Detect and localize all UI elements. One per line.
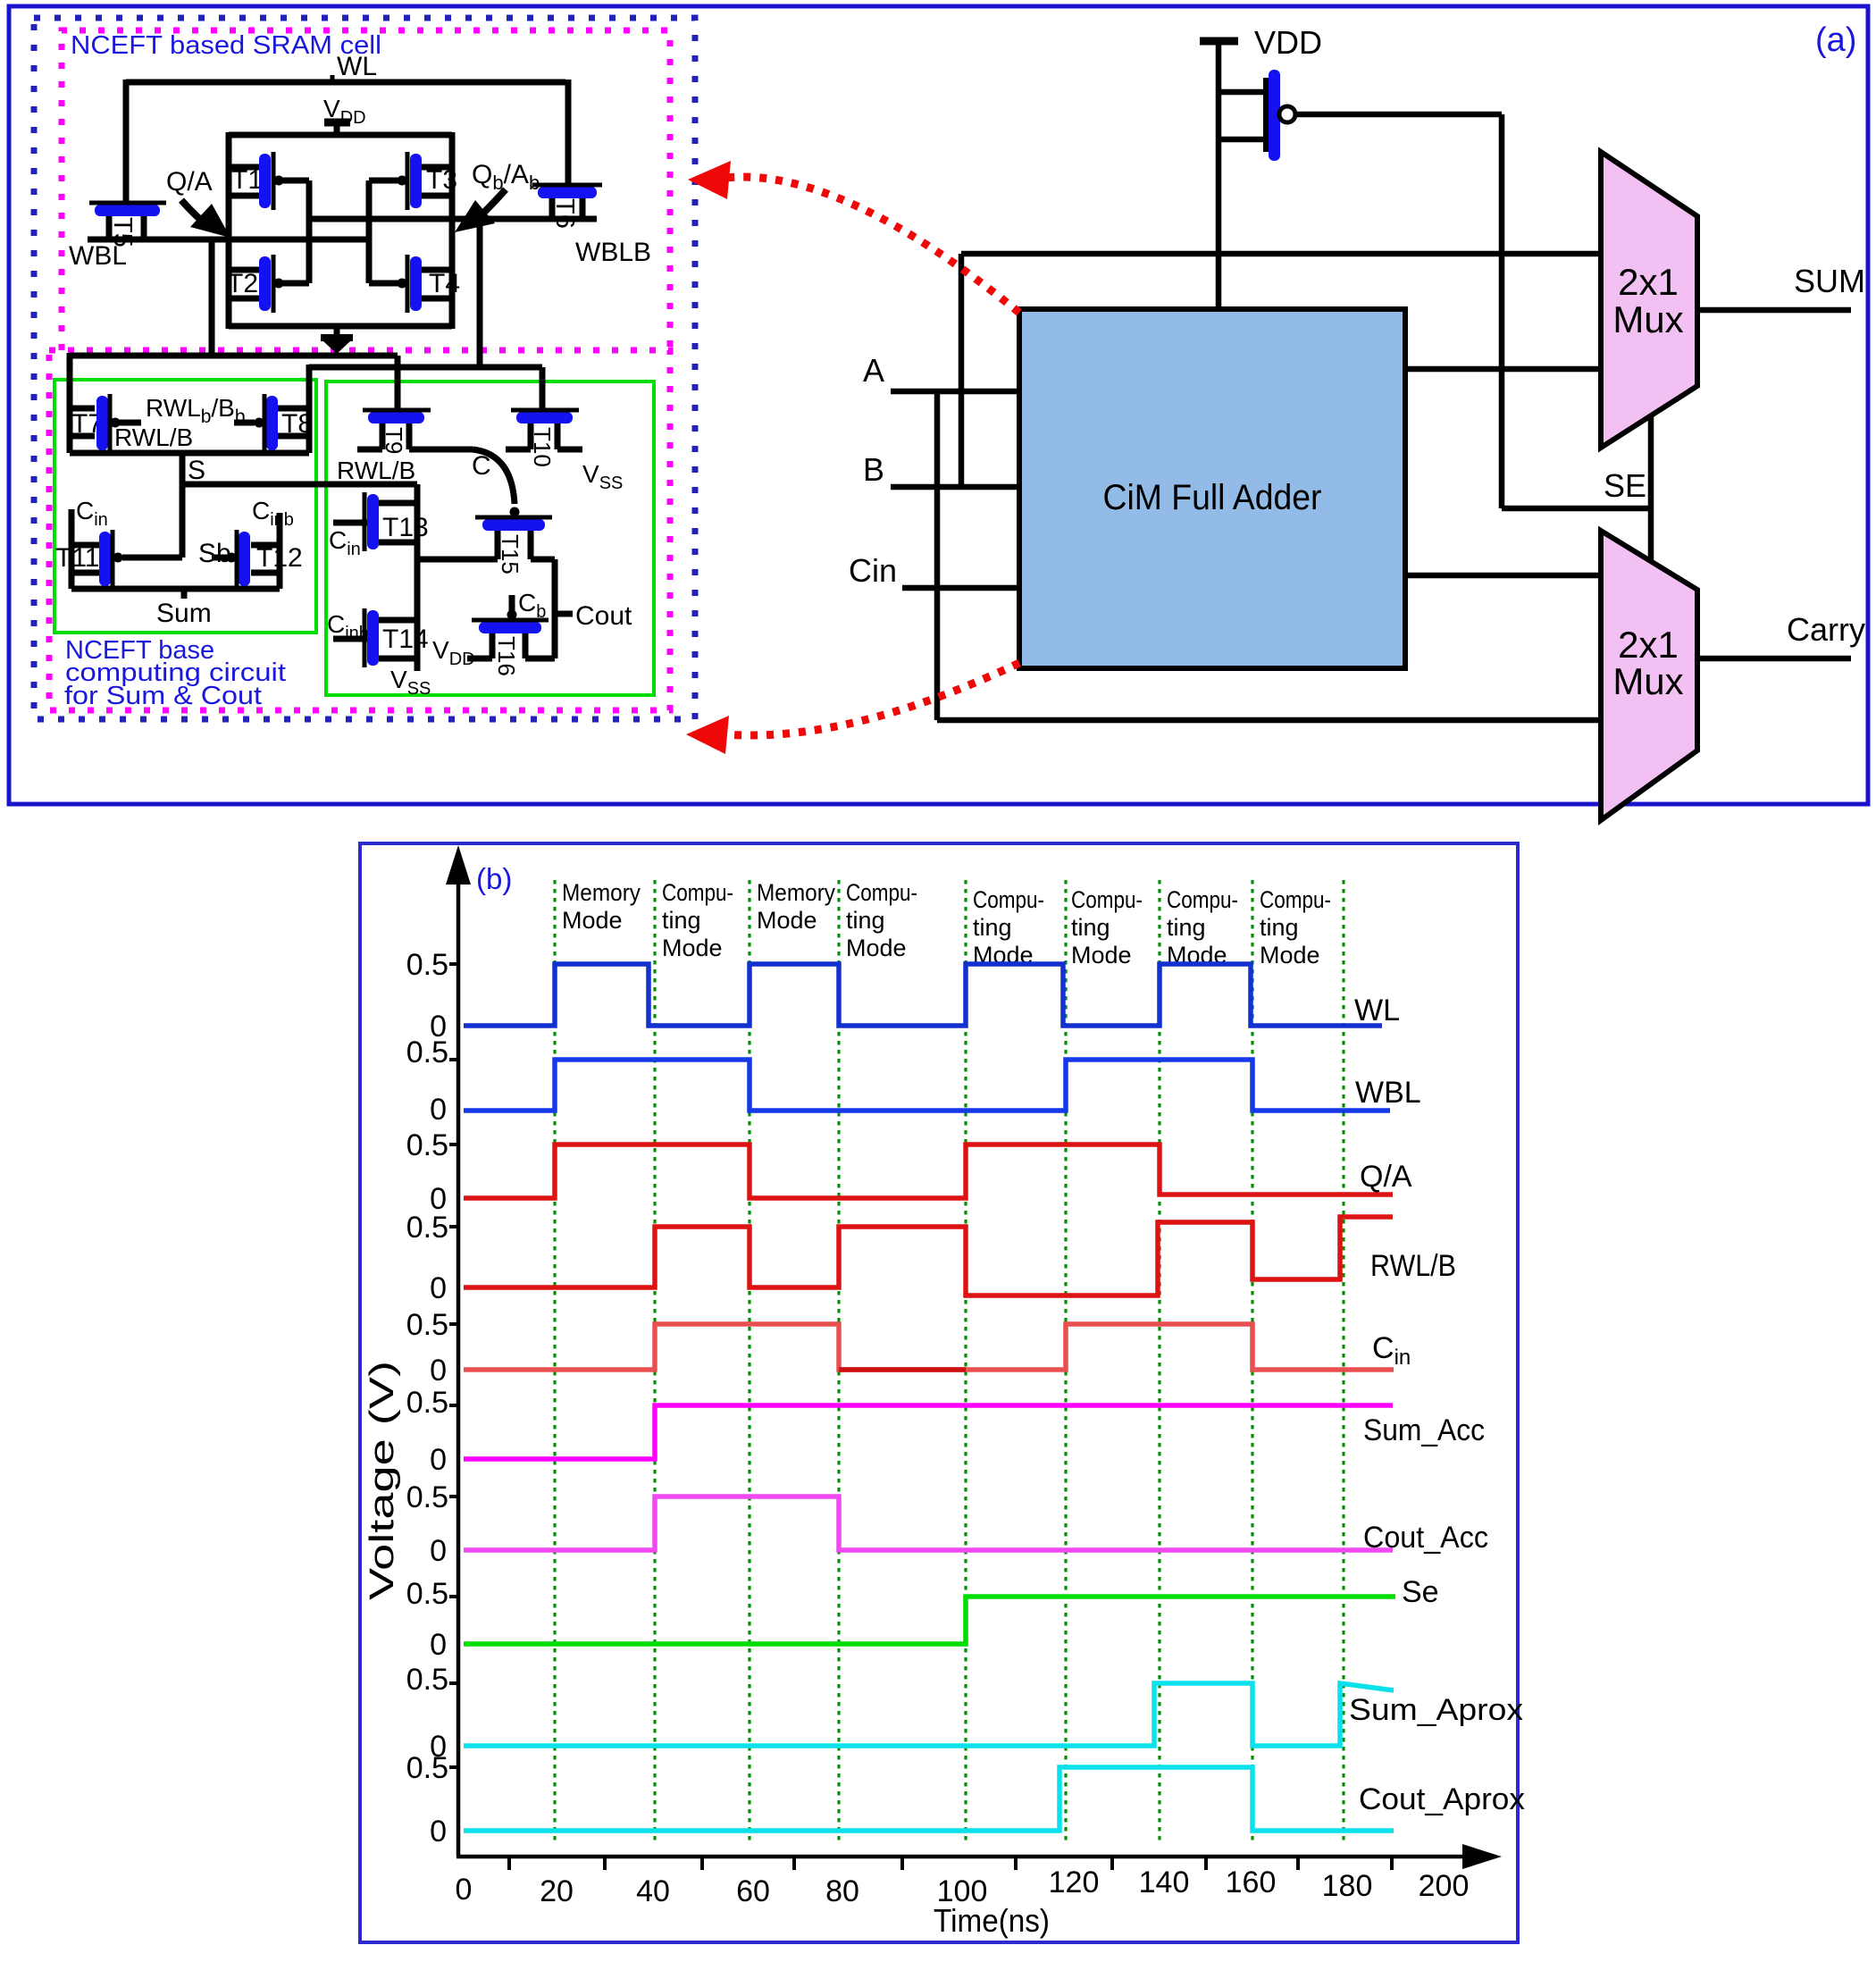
svg-text:for Sum & Cout: for Sum & Cout [64, 682, 262, 710]
svg-text:0: 0 [430, 1534, 447, 1568]
svg-text:0: 0 [430, 1628, 447, 1662]
svg-text:0: 0 [430, 1271, 447, 1305]
svg-text:2x1: 2x1 [1618, 624, 1679, 666]
svg-text:WBL: WBL [1355, 1076, 1421, 1110]
svg-text:C: C [472, 451, 491, 481]
svg-text:Mux: Mux [1612, 298, 1683, 340]
svg-text:T2: T2 [227, 269, 258, 298]
svg-text:SUM: SUM [1794, 263, 1865, 299]
svg-text:ting: ting [1071, 914, 1110, 941]
svg-text:Mode: Mode [1071, 942, 1132, 968]
svg-text:WBLB: WBLB [575, 238, 651, 267]
svg-text:Compu-: Compu- [1167, 886, 1238, 913]
svg-text:A: A [863, 352, 884, 389]
svg-text:0: 0 [430, 1354, 447, 1388]
svg-text:Mode: Mode [757, 907, 817, 934]
svg-text:RWL/B: RWL/B [1370, 1249, 1456, 1283]
svg-text:Mode: Mode [1260, 942, 1320, 968]
svg-text:Carry: Carry [1787, 611, 1865, 648]
svg-text:Time(ns): Time(ns) [934, 1902, 1050, 1939]
svg-text:Q/A: Q/A [1360, 1160, 1412, 1194]
svg-text:T9: T9 [381, 427, 407, 454]
svg-text:20: 20 [540, 1874, 574, 1908]
svg-text:S: S [188, 456, 205, 485]
svg-text:80: 80 [825, 1874, 859, 1908]
svg-text:Mux: Mux [1612, 660, 1683, 702]
svg-text:0: 0 [430, 1443, 447, 1477]
svg-text:0: 0 [430, 1093, 447, 1127]
svg-text:180: 180 [1322, 1869, 1373, 1903]
svg-text:0: 0 [430, 1815, 447, 1849]
svg-text:Compu-: Compu- [846, 879, 917, 906]
svg-text:(a): (a) [1815, 21, 1856, 59]
svg-text:T16: T16 [493, 636, 520, 676]
svg-text:120: 120 [1049, 1866, 1100, 1899]
svg-text:WL: WL [337, 52, 377, 81]
svg-text:T12: T12 [256, 543, 303, 573]
svg-text:T13: T13 [382, 513, 429, 542]
svg-text:ting: ting [662, 907, 701, 934]
svg-text:Mode: Mode [662, 935, 723, 961]
svg-text:CiM Full Adder: CiM Full Adder [1103, 478, 1322, 517]
svg-text:T10: T10 [529, 427, 556, 467]
svg-text:Memory: Memory [562, 879, 641, 906]
svg-text:Compu-: Compu- [973, 886, 1044, 913]
svg-text:T6: T6 [550, 198, 579, 229]
svg-text:RWL/B: RWL/B [337, 457, 415, 484]
svg-text:0: 0 [456, 1873, 473, 1907]
svg-text:160: 160 [1226, 1866, 1277, 1899]
svg-text:T8: T8 [281, 409, 313, 439]
svg-text:Mode: Mode [562, 907, 623, 934]
svg-text:T14: T14 [382, 625, 429, 654]
svg-text:B: B [863, 451, 884, 488]
svg-text:200: 200 [1419, 1869, 1470, 1903]
svg-text:Cout: Cout [575, 601, 632, 631]
svg-text:T5: T5 [108, 217, 137, 247]
svg-text:Memory: Memory [757, 879, 835, 906]
svg-text:ting: ting [846, 907, 885, 934]
svg-text:Mode: Mode [846, 935, 907, 961]
svg-text:Sum: Sum [156, 599, 212, 628]
svg-text:T11: T11 [55, 543, 99, 573]
svg-text:0.5: 0.5 [406, 1663, 448, 1697]
svg-text:VDD: VDD [1254, 24, 1322, 61]
svg-text:RWL/B: RWL/B [114, 423, 193, 451]
svg-text:0.5: 0.5 [406, 1386, 448, 1420]
svg-text:T3: T3 [426, 165, 457, 195]
svg-text:ting: ting [1260, 914, 1299, 941]
svg-text:T4: T4 [429, 269, 460, 298]
svg-text:ting: ting [973, 914, 1012, 941]
svg-text:Cin: Cin [849, 552, 897, 589]
svg-text:2x1: 2x1 [1618, 261, 1679, 303]
svg-text:0.5: 0.5 [406, 1211, 448, 1245]
svg-text:0.5: 0.5 [406, 1308, 448, 1342]
svg-text:Compu-: Compu- [1071, 886, 1143, 913]
svg-text:0.5: 0.5 [406, 1035, 448, 1069]
svg-text:Compu-: Compu- [1260, 886, 1331, 913]
svg-text:Sum_Aprox: Sum_Aprox [1349, 1693, 1523, 1727]
svg-text:0.5: 0.5 [406, 1751, 448, 1785]
svg-text:Sb: Sb [198, 539, 231, 568]
svg-text:ting: ting [1167, 914, 1206, 941]
svg-text:Voltage (V): Voltage (V) [364, 1361, 401, 1600]
svg-text:(b): (b) [476, 862, 512, 895]
svg-text:SE: SE [1604, 467, 1646, 504]
svg-text:WL: WL [1354, 994, 1400, 1027]
svg-text:Cout_Acc: Cout_Acc [1363, 1521, 1488, 1555]
svg-text:40: 40 [636, 1874, 670, 1908]
svg-text:Compu-: Compu- [662, 879, 733, 906]
svg-text:Se: Se [1402, 1575, 1439, 1609]
svg-text:Q/A: Q/A [166, 167, 213, 197]
svg-text:0.5: 0.5 [406, 1480, 448, 1514]
svg-text:60: 60 [736, 1874, 770, 1908]
svg-text:Cout_Aprox: Cout_Aprox [1359, 1782, 1525, 1816]
svg-text:Sum_Acc: Sum_Acc [1363, 1413, 1485, 1447]
svg-text:140: 140 [1139, 1866, 1190, 1899]
svg-text:0.5: 0.5 [406, 1577, 448, 1611]
svg-text:T1: T1 [231, 165, 263, 195]
svg-text:NCEFT based SRAM cell: NCEFT based SRAM cell [71, 31, 381, 60]
svg-text:T15: T15 [497, 534, 523, 574]
svg-text:0.5: 0.5 [406, 948, 448, 982]
svg-text:0.5: 0.5 [406, 1128, 448, 1162]
